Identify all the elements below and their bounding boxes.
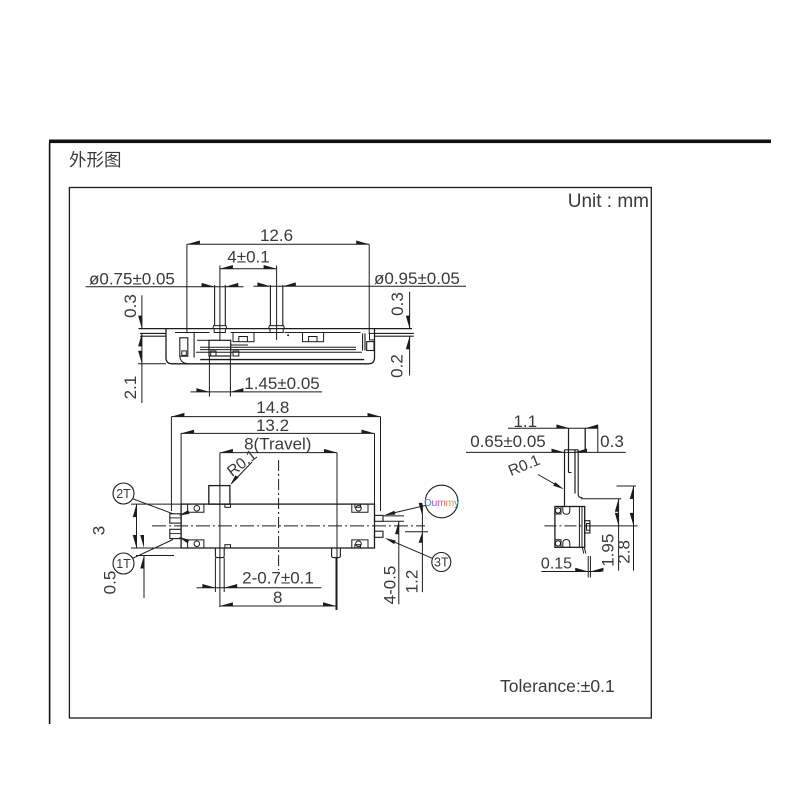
svg-text:ø0.75±0.05: ø0.75±0.05	[89, 270, 175, 289]
dim 1.45 line	[191, 391, 322, 393]
dim 0.15 line	[541, 571, 601, 573]
terminal Dummy plan	[375, 515, 384, 521]
svg-text:3T: 3T	[434, 556, 449, 570]
svg-text:0.3: 0.3	[600, 432, 624, 451]
lever hook	[578, 450, 582, 498]
svg-text:Tolerance:±0.1: Tolerance:±0.1	[500, 676, 615, 696]
lever inner edge a	[568, 428, 570, 473]
lever inner edge b	[574, 450, 576, 494]
knob center extension line	[219, 453, 221, 607]
corner tab bottom-left	[188, 540, 204, 548]
side corner tab bottom	[555, 540, 561, 548]
dim 4-0.5 line	[398, 521, 400, 604]
corner tab top-left	[188, 504, 204, 512]
side corner tab top	[555, 507, 561, 515]
bottom pin 1 plan	[215, 548, 224, 558]
lever left edge	[564, 450, 566, 507]
tail pin edge a	[582, 547, 584, 553]
dim 1.95 extension	[581, 498, 622, 500]
svg-text:0.5: 0.5	[101, 571, 120, 595]
left terminal foot	[182, 351, 187, 356]
2T leader arrow	[179, 510, 190, 515]
lever step edge	[569, 472, 572, 474]
dim 4±0.1 line	[220, 268, 277, 270]
R0.1 side leader	[538, 475, 560, 488]
switch body plan outline	[181, 504, 374, 548]
dim 0.3 left line	[141, 295, 143, 328]
pin 1 collar	[213, 326, 227, 329]
left bent terminal top edge	[140, 332, 166, 334]
drawing frame box	[69, 188, 651, 719]
element plate bottom line	[200, 359, 364, 361]
svg-text:2T: 2T	[116, 487, 131, 501]
bottom pin 2 plan	[332, 548, 341, 558]
dim 3 line	[136, 504, 138, 548]
body top surface line middle segment	[226, 328, 270, 330]
dim 0.3 extension a	[584, 428, 586, 453]
left bent terminal bottom edge	[140, 335, 166, 337]
switch body side outline	[555, 507, 585, 548]
right terminal top tab	[370, 333, 375, 340]
terminal 3T plan	[375, 531, 384, 537]
dim 1.1 line	[508, 427, 598, 429]
dim 0.2 line	[409, 336, 411, 375]
dim 14.8 left extension	[170, 417, 172, 511]
dim 1.45 left extension	[208, 356, 210, 397]
slider knob plan	[209, 486, 230, 505]
pin edge extension b	[223, 558, 225, 592]
svg-text:Dummy: Dummy	[424, 497, 460, 509]
svg-text:0.15: 0.15	[541, 556, 572, 573]
svg-text:12.6: 12.6	[260, 226, 293, 245]
dim 1.2 lower extension	[405, 531, 428, 533]
terminal 2T plan	[170, 514, 181, 523]
svg-text:8: 8	[273, 588, 282, 607]
element plate top line	[200, 346, 356, 348]
element plate third line	[196, 351, 362, 353]
bottom edge tab b	[355, 545, 361, 548]
top edge tab a	[225, 504, 231, 507]
terminal 1T plan	[170, 529, 181, 538]
R0.1 leader	[232, 462, 253, 484]
body bottom slot	[563, 540, 570, 548]
dim 12.6 left extension	[186, 244, 188, 333]
dim 2.1 bottom extension	[138, 363, 166, 365]
body inner wall b	[581, 507, 583, 547]
svg-text:4±0.1: 4±0.1	[227, 248, 269, 267]
svg-text:R0.1: R0.1	[506, 452, 543, 480]
svg-text:2-0.7±0.1: 2-0.7±0.1	[242, 569, 314, 588]
side terminal protrusion	[585, 521, 590, 533]
side rivet bottom	[555, 541, 560, 546]
dim ø0.95 leader line	[253, 285, 466, 287]
right bent terminal top edge	[375, 332, 414, 334]
top edge tab b	[355, 504, 361, 507]
3T leader arrow	[385, 538, 396, 544]
Dummy leader arrow	[384, 511, 395, 515]
pin edge extension a	[214, 558, 216, 592]
dim 2.8 line	[633, 486, 635, 571]
svg-text:8(Travel): 8(Travel)	[244, 435, 311, 454]
dim 13.2 line	[181, 432, 374, 434]
corner tab rivet	[356, 541, 362, 547]
pin 1 left edge	[214, 285, 216, 326]
dim 2.1 line	[141, 333, 143, 403]
right bent terminal bottom edge	[375, 335, 414, 337]
body top surface line left segment	[139, 328, 214, 330]
terminal 2T inner line	[170, 517, 181, 519]
dim 0.65 leader line	[466, 451, 626, 453]
switch body side view outline	[166, 329, 375, 364]
dim 3 top extension	[131, 503, 181, 505]
corner tab rivet	[194, 541, 200, 547]
left terminal inner wall	[193, 332, 195, 358]
svg-text:0.3: 0.3	[121, 294, 140, 318]
dim 1.45 right extension	[229, 356, 231, 397]
svg-text:2.8: 2.8	[614, 540, 633, 564]
svg-text:13.2: 13.2	[256, 416, 289, 435]
right pin center extension	[335, 558, 337, 610]
centerline extension to dims	[592, 525, 638, 527]
lever right extension	[584, 428, 586, 453]
lever top edge	[565, 449, 579, 451]
terminal 1T inner line	[170, 533, 181, 535]
dim 2.8 extension	[617, 485, 637, 487]
terminal width extension b	[383, 520, 404, 522]
page left rule	[49, 143, 51, 724]
pin 1 base in cover	[214, 329, 225, 333]
svg-text:ø0.95±0.05: ø0.95±0.05	[374, 269, 460, 288]
corner tab top-right	[352, 504, 368, 512]
corner tab rivet	[356, 506, 362, 512]
dim 12.6 right extension	[368, 244, 370, 334]
right terminal block	[367, 342, 374, 351]
page top rule	[49, 140, 771, 144]
element plate second line	[200, 349, 356, 351]
svg-text:0.2: 0.2	[388, 354, 407, 378]
body top surface line right segment	[284, 328, 412, 330]
body vertical centerline	[278, 460, 280, 570]
dim 0.5 extension	[136, 555, 174, 557]
cover tab 1 notch	[239, 337, 248, 342]
slider wiper block	[209, 340, 231, 356]
side rivet top	[555, 508, 560, 513]
dim 0.3 extension b	[597, 428, 599, 453]
svg-text:1.2: 1.2	[402, 570, 421, 594]
Dummy leader line	[390, 505, 427, 514]
svg-text:0.65±0.05: 0.65±0.05	[470, 432, 546, 451]
dim 3 bottom extension	[131, 547, 181, 549]
inner cover line a	[175, 332, 210, 334]
wiper top ledge	[197, 339, 209, 341]
pin 2 base in cover	[270, 329, 283, 333]
1T leader line	[133, 540, 173, 559]
dim 13.2 right extension	[374, 433, 376, 504]
wiper foot left	[211, 351, 216, 356]
body top slot	[563, 507, 570, 515]
svg-text:0.3: 0.3	[388, 292, 407, 316]
left terminal hook	[180, 356, 188, 363]
2T leader line	[133, 499, 173, 514]
svg-text:1.45±0.05: 1.45±0.05	[244, 374, 320, 393]
terminal label 1T circle	[113, 553, 134, 574]
wiper arm line	[231, 344, 248, 346]
dim 2-0.7 line	[197, 587, 322, 589]
tail pin edge b	[584, 547, 586, 553]
left terminal block	[180, 338, 188, 356]
corner tab bottom-right	[352, 540, 368, 548]
body inner wall a	[578, 507, 580, 547]
svg-text:2.1: 2.1	[121, 376, 140, 400]
svg-text:Unit : mm: Unit : mm	[568, 191, 649, 212]
dim 1.95 line	[618, 499, 620, 571]
dim 14.8 right extension	[380, 417, 382, 511]
right terminal edge a	[362, 333, 364, 350]
cover tab 2 notch	[309, 337, 317, 342]
dim 8 travel line	[220, 452, 337, 454]
pin 1 right edge	[224, 285, 226, 326]
side view centerline	[544, 525, 592, 527]
dim 8 line	[220, 605, 336, 607]
svg-text:4-0.5: 4-0.5	[380, 566, 399, 605]
1T leader arrow	[179, 537, 190, 543]
svg-text:1T: 1T	[116, 557, 131, 571]
wiper foot right	[233, 351, 239, 356]
dim 0.15 extension a	[587, 556, 589, 578]
pin 1 centerline	[219, 266, 221, 341]
dim 1.2 line	[421, 505, 423, 592]
side terminal inner	[587, 524, 590, 531]
dim 12.6 line	[187, 243, 369, 245]
svg-text:外形图: 外形图	[69, 150, 122, 170]
corner tab rivet	[194, 506, 200, 512]
travel right extension line	[336, 453, 338, 610]
R0.1 arrow	[230, 475, 238, 485]
dim 13.2 left extension	[180, 433, 182, 504]
dim 0.15 extension b	[589, 556, 591, 578]
svg-text:14.8: 14.8	[256, 398, 289, 417]
dim 0.3 right line	[409, 292, 411, 329]
cover tab 2	[303, 333, 324, 342]
svg-text:3: 3	[90, 526, 109, 535]
terminal label 3T circle	[432, 553, 451, 572]
inner cover line c	[285, 332, 361, 334]
pin 2 centerline	[276, 266, 278, 341]
R0.1 side arrow	[553, 482, 564, 489]
dim 0.5 line	[143, 556, 145, 599]
3T leader line	[390, 540, 433, 558]
pin 2 right edge	[282, 285, 284, 326]
cover tab 1	[233, 333, 254, 342]
rivet dot	[287, 334, 289, 336]
pin 2 left edge	[269, 285, 271, 326]
horizontal centerline	[152, 525, 425, 527]
dim ø0.75 leader line	[86, 286, 244, 288]
dim 14.8 line	[171, 416, 380, 418]
inner cover line b	[231, 332, 271, 334]
pin 2 collar	[269, 326, 285, 329]
right terminal edge b	[364, 333, 366, 350]
terminal label 2T circle	[113, 483, 134, 504]
terminal label Dummy circle	[425, 485, 458, 518]
terminal width extension a	[383, 515, 404, 517]
bottom edge tab a	[225, 545, 231, 548]
